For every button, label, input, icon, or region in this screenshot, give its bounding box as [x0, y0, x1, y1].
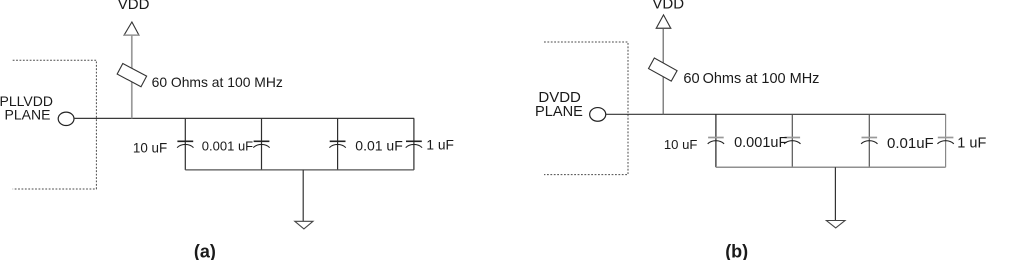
ferrite bead FB2 (b) [649, 58, 678, 81]
wire ground stem (a) [302, 170, 304, 221]
svg-text:1 uF: 1 uF [426, 138, 454, 153]
svg-text:VDD: VDD [118, 0, 150, 13]
svg-text:10 uF: 10 uF [664, 137, 697, 152]
svg-text:(a): (a) [194, 241, 216, 260]
terminal circle (b) [590, 108, 606, 122]
svg-text:10 uF: 10 uF [133, 141, 167, 156]
capacitor C4 1uF (a) [406, 118, 422, 169]
power VDD arrow (b) [656, 15, 671, 28]
wire VDD stem (a) [131, 35, 133, 118]
power VDD arrow (a) [124, 22, 139, 35]
ground symbol (a) [295, 221, 313, 229]
wire main horizontal (b) [606, 113, 946, 115]
capacitor C2 0.001uF (a) [253, 118, 269, 169]
wire VDD stem (b) [662, 28, 664, 114]
capacitor C6 0.001uF (b) [784, 114, 800, 167]
svg-text:(b): (b) [725, 241, 748, 260]
wire bottom bus (b) [716, 166, 946, 168]
svg-text:60 Ohms at 100 MHz: 60 Ohms at 100 MHz [152, 74, 283, 90]
svg-text:0.001 uF: 0.001 uF [202, 139, 253, 154]
capacitor C5 10uF (b) [708, 114, 724, 167]
wire ground stem (b) [834, 167, 836, 220]
svg-text:0.001uF: 0.001uF [734, 135, 787, 151]
terminal circle (a) [58, 112, 74, 125]
svg-text:60: 60 [683, 71, 699, 87]
svg-text:PLANE: PLANE [5, 107, 51, 123]
svg-text:PLANE: PLANE [535, 104, 583, 120]
ferrite bead FB1 (a) [117, 63, 146, 86]
DVDD plane dashed box [544, 42, 628, 175]
wire bottom bus (a) [185, 169, 414, 171]
svg-text:0.01 uF: 0.01 uF [355, 138, 402, 154]
svg-text:1 uF: 1 uF [957, 135, 986, 151]
svg-text:Ohms at 100 MHz: Ohms at 100 MHz [703, 71, 820, 87]
capacitor C3 0.01uF (a) [329, 118, 345, 169]
capacitor C7 0.01uF (b) [861, 114, 877, 167]
svg-text:VDD: VDD [652, 0, 684, 13]
ground symbol (b) [826, 221, 845, 228]
capacitor C1 10uF (a) [177, 118, 193, 169]
svg-text:0.01uF: 0.01uF [887, 135, 934, 152]
wire main horizontal (a) [74, 117, 414, 119]
PLLVDD plane dashed box [13, 60, 97, 189]
capacitor C8 1uF (b) [937, 114, 953, 167]
